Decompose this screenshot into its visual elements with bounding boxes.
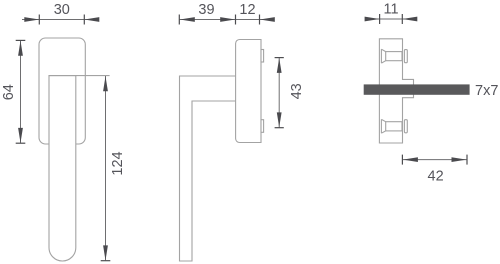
dim 12 tick right bbox=[259, 15, 261, 25]
dim 43 arrow up (inside) bbox=[277, 58, 282, 73]
dim 39 tick left bbox=[178, 15, 180, 25]
dim 124 line bbox=[105, 76, 107, 260]
svg-text:64: 64 bbox=[1, 84, 17, 100]
dim 11 tick right bbox=[401, 14, 403, 24]
extension line for 124 dim (top) bbox=[49, 75, 110, 77]
dim 11 line bbox=[365, 18, 417, 20]
svg-text:42: 42 bbox=[428, 168, 444, 184]
top clip tab bbox=[261, 50, 264, 63]
dim 30 tick right bbox=[83, 15, 85, 25]
handle grip front (elongated with round bottom) bbox=[49, 76, 76, 261]
dim 64 tick top bbox=[16, 39, 26, 41]
dim 64 line bbox=[20, 41, 22, 144]
dim 42 arrow right (inside, pointing right) bbox=[452, 157, 467, 162]
top screw taper top bbox=[381, 49, 385, 51]
dim 42 tick left bbox=[401, 155, 403, 165]
dim 43 arrow down (inside) bbox=[277, 112, 282, 127]
dim 39/12 line bbox=[179, 19, 274, 21]
bottom clip tab bbox=[261, 120, 264, 133]
dim 124 tick bottom bbox=[101, 260, 111, 262]
svg-text:43: 43 bbox=[289, 83, 305, 99]
top screw head face bbox=[380, 49, 382, 63]
mounting plate outline with spindle boss step bbox=[379, 39, 413, 143]
svg-text:124: 124 bbox=[110, 151, 126, 175]
spindle bar 7x7 bbox=[364, 84, 470, 94]
dim 124 arrow up (inside) bbox=[103, 76, 108, 91]
dim 11 arrow left (outside, pointing right) bbox=[365, 17, 380, 22]
bottom screw taper top bbox=[381, 119, 385, 121]
dim 11 tick left bbox=[379, 14, 381, 24]
top screw shank bbox=[386, 52, 402, 61]
rosette front (rounded rectangle) bbox=[39, 38, 85, 144]
dim 30 tick left bbox=[38, 15, 40, 25]
dim 42 arrow left (inside, pointing left) bbox=[403, 157, 418, 162]
rosette side profile bbox=[236, 40, 261, 143]
dim 64 arrow up (inside) bbox=[18, 41, 23, 56]
svg-text:12: 12 bbox=[239, 2, 255, 18]
dim 124 arrow down (inside) bbox=[103, 245, 108, 260]
dim 43 line bbox=[278, 58, 280, 128]
bottom screw shank bbox=[386, 122, 402, 131]
bottom screw head face bbox=[380, 119, 382, 133]
dim 43 tick bottom bbox=[275, 127, 284, 129]
dim 42 line bbox=[402, 159, 467, 161]
bottom screw cap bbox=[404, 120, 407, 133]
dim 12 arrow (outside right, pointing left) bbox=[260, 17, 275, 22]
dim 39 arrow left (inside, pointing left) bbox=[180, 17, 195, 22]
dim 30 arrow left (outside, pointing right) bbox=[24, 17, 39, 22]
svg-text:7x7: 7x7 bbox=[475, 83, 498, 99]
bottom screw taper bottom bbox=[381, 131, 385, 133]
dim 64 arrow down (inside) bbox=[18, 128, 23, 143]
dim 30 line bbox=[22, 19, 99, 21]
dim 11 arrow right (outside, pointing left) bbox=[402, 17, 417, 22]
dim 43 tick top bbox=[275, 57, 284, 59]
dim 39/12 tick middle bbox=[235, 15, 237, 25]
dim 30 arrow right (outside, pointing left) bbox=[84, 17, 99, 22]
top screw cap bbox=[404, 50, 407, 63]
handle lever side (L-shape) bbox=[180, 76, 236, 261]
top screw taper bottom bbox=[381, 61, 385, 63]
svg-text:30: 30 bbox=[54, 2, 70, 18]
svg-text:39: 39 bbox=[198, 2, 214, 18]
dim 64 tick bottom bbox=[16, 142, 26, 144]
dim 39 arrow right (inside, pointing right) bbox=[220, 17, 235, 22]
svg-text:11: 11 bbox=[383, 2, 398, 18]
dim 42 tick right bbox=[466, 155, 468, 165]
